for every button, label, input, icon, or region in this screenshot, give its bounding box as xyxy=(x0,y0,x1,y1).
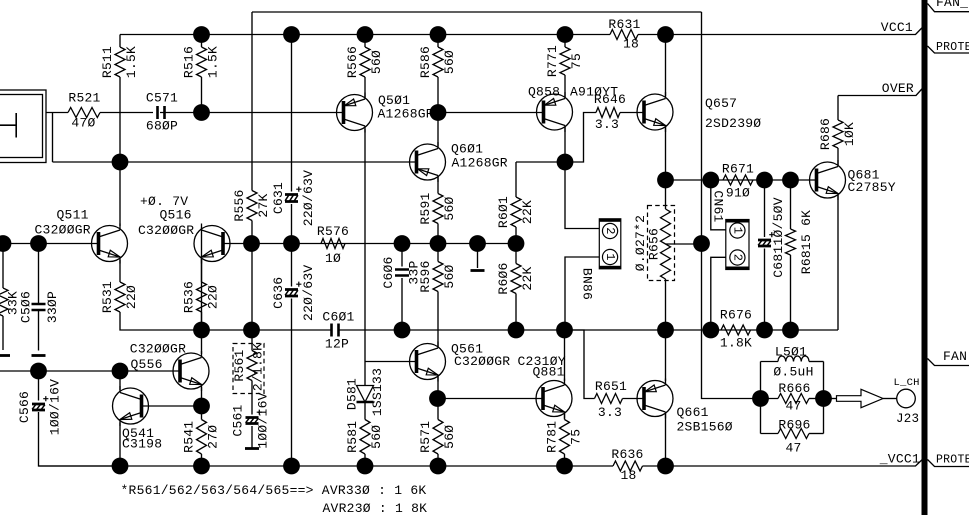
wire Q516 emitter to R536 [overlap] xyxy=(201,259,203,283)
wire CN61 pin2 down to node xyxy=(711,257,726,330)
junction at (516,330) xyxy=(508,322,525,339)
svg-text:L_CH: L_CH xyxy=(894,377,920,389)
junction at (665.5,466) on bottom rail xyxy=(657,458,674,475)
wire R586 top xyxy=(437,35,439,48)
svg-text:1SS133: 1SS133 xyxy=(370,368,385,416)
svg-text:2SB156Ø: 2SB156Ø xyxy=(677,420,733,435)
junction at (402,330) xyxy=(394,322,411,339)
wire L-block left side xyxy=(760,362,762,434)
wire node to R571 xyxy=(437,399,439,420)
wire node to Q556 collector xyxy=(201,330,203,354)
resistor R636 18 xyxy=(611,447,643,483)
capacitor C631 220/63V xyxy=(271,170,316,226)
dashed box R656 xyxy=(648,206,675,281)
wire OVER down to R686 xyxy=(837,96,839,121)
wire box to R521 xyxy=(46,112,68,114)
svg-text:R636: R636 xyxy=(611,447,643,462)
wire Q657 collector xyxy=(665,35,667,97)
output arrow to J23 xyxy=(837,389,884,407)
wire R516 bottom xyxy=(201,77,203,113)
wire D581 to R581 xyxy=(364,402,366,420)
inductor L501 0.5uH xyxy=(773,345,813,380)
svg-text:C32ØØGR: C32ØØGR xyxy=(35,223,91,238)
resistor R566 560 xyxy=(345,46,384,78)
svg-text:VCC1: VCC1 xyxy=(881,20,913,35)
svg-text:18: 18 xyxy=(623,37,639,52)
junction at (120,466) on bottom rail xyxy=(112,458,129,475)
svg-text:12P: 12P xyxy=(325,337,349,352)
wire R686 to Q681 collector xyxy=(837,148,839,165)
svg-text:1ØK: 1ØK xyxy=(842,122,857,146)
wire top bus down to L501 block xyxy=(702,12,761,399)
svg-text:91Ø: 91Ø xyxy=(726,186,750,201)
terminal stub mid line xyxy=(471,269,485,272)
junction at (790.5,330) xyxy=(782,322,799,339)
junction at (38.5,243.5) xyxy=(30,235,47,252)
svg-text:Q858: Q858 xyxy=(528,85,560,100)
svg-text:PROTECT: PROTECT xyxy=(936,41,969,54)
resistor R651 3.3 xyxy=(595,379,628,420)
junction at (251.5,243.5) xyxy=(243,235,260,252)
wire Q501 collector down to D581 node xyxy=(364,129,366,362)
junction at (665.5,180) xyxy=(657,172,674,189)
wire top bus y12 xyxy=(252,11,702,13)
wire Q858 emitter down xyxy=(564,127,566,163)
wire Q681 emitter down xyxy=(837,195,839,330)
svg-text:1.5K: 1.5K xyxy=(205,46,220,78)
wire node to D581 xyxy=(364,362,366,386)
svg-text:R576: R576 xyxy=(317,224,349,239)
wire arrow to J23 xyxy=(883,398,897,400)
capacitor C681 10/50V xyxy=(758,232,774,246)
wire R536 bottom xyxy=(201,312,203,330)
junction at (3,243.5) xyxy=(0,235,11,252)
junction at (291.5,243.5) xyxy=(283,235,300,252)
junction at (437.5,398.5) xyxy=(429,390,446,407)
svg-text:47: 47 xyxy=(785,399,801,414)
input connector box xyxy=(0,90,46,163)
resistor R631 18 xyxy=(608,17,640,52)
svg-text:2/1.8K: 2/1.8K xyxy=(250,343,265,391)
svg-text:FAN_L: FAN_L xyxy=(936,0,969,10)
junction at (665.5,330) xyxy=(657,322,674,339)
wire R771 top xyxy=(564,35,566,48)
wire R666 right xyxy=(809,398,824,400)
wire Q516 base line east xyxy=(223,243,516,245)
junction Q858 emitter node xyxy=(557,154,574,171)
svg-text:C2785Y: C2785Y xyxy=(848,180,896,195)
svg-text:3.3: 3.3 xyxy=(598,405,622,420)
wire Q541 emitter down xyxy=(119,423,121,467)
wire R601 branch horizontal xyxy=(516,161,565,163)
wire base rail of Q556 xyxy=(0,370,180,372)
terminal stub C506 xyxy=(32,354,46,357)
junction at (365,466) on bottom rail xyxy=(357,458,374,475)
diode D581 1SS133 xyxy=(344,368,385,416)
svg-text:R781: R781 xyxy=(544,421,559,453)
svg-text:27Ø: 27Ø xyxy=(205,425,220,449)
svg-text:R6815 6K: R6815 6K xyxy=(799,210,814,274)
svg-text:C32ØØGR: C32ØØGR xyxy=(130,342,186,357)
svg-text:R6Ø1: R6Ø1 xyxy=(496,196,511,228)
svg-text:Q556: Q556 xyxy=(131,357,163,372)
transistor Q681 C2785Y xyxy=(810,160,896,200)
wire mid line to Q511 base xyxy=(0,243,97,245)
svg-text:1: 1 xyxy=(730,227,744,234)
resistor R681 5.6K xyxy=(786,229,796,255)
wire mid node to C636 xyxy=(291,244,293,287)
junction at (564.5,466) on bottom rail xyxy=(556,458,573,475)
capacitor C606 33P xyxy=(381,256,422,288)
junction at (120,371) xyxy=(112,363,129,380)
wire to R696 xyxy=(761,433,779,435)
svg-text:22Ø/63V: 22Ø/63V xyxy=(301,170,316,226)
svg-text:R516: R516 xyxy=(181,46,196,78)
svg-text:75: 75 xyxy=(568,429,583,445)
svg-text:1Ø: 1Ø xyxy=(325,251,341,266)
svg-text:Q661: Q661 xyxy=(677,405,709,420)
junction at (564.5,330) xyxy=(556,322,573,339)
resistor R556 27K xyxy=(232,189,271,221)
resistor R571 560 xyxy=(418,420,457,455)
svg-text:CN61: CN61 xyxy=(711,190,726,222)
wire to L501 xyxy=(761,361,779,363)
svg-text:R536: R536 xyxy=(181,281,196,313)
junction at (438,34.5) on VCC rail xyxy=(430,26,447,43)
wire C631 to mid node xyxy=(291,204,293,244)
wire VCC rail left part xyxy=(120,34,610,36)
wire R646 to Q657 base xyxy=(620,112,644,114)
wire Q541 collector up xyxy=(119,371,121,390)
svg-text:R541: R541 xyxy=(181,421,196,453)
wire node to R651 xyxy=(565,330,595,399)
svg-text:Q881: Q881 xyxy=(533,365,565,380)
wire node to Q858 base xyxy=(438,112,544,114)
junction at (201.5,466) on bottom rail xyxy=(193,458,210,475)
junction Q511 collector node xyxy=(112,154,129,171)
connector BN86 xyxy=(580,219,621,300)
wire 33K to terminal xyxy=(2,316,4,350)
resistor R576 10 xyxy=(317,224,349,266)
junction at (201.5,34.5) on VCC rail xyxy=(193,26,210,43)
junction at (710.8,330) xyxy=(702,322,719,339)
svg-text:Ø.5uH: Ø.5uH xyxy=(773,365,813,380)
svg-text:R676: R676 xyxy=(720,308,752,323)
svg-text:R686: R686 xyxy=(818,118,833,150)
wire emitter line to Q681 base xyxy=(666,179,817,181)
resistor R601 22K xyxy=(496,196,535,228)
svg-text:*R561/562/563/564/565==> AVR33: *R561/562/563/564/565==> AVR33Ø : 1 6K xyxy=(121,483,427,498)
wire R771 to Q858 xyxy=(564,75,566,98)
wire R566 to Q501 emitter xyxy=(364,77,366,98)
wire R696 right xyxy=(809,433,824,435)
junction at (760.5,398.5) xyxy=(752,390,769,407)
wire C601 east line xyxy=(339,329,839,331)
wire node to R541 xyxy=(201,406,203,420)
junction at (565,34.5) on VCC rail xyxy=(557,26,574,43)
svg-text:D581: D581 xyxy=(344,378,359,410)
wire R531 to C601 line xyxy=(120,312,332,330)
resistor R671 910 xyxy=(722,162,754,201)
svg-text:R571: R571 xyxy=(418,421,433,453)
wire R511 top xyxy=(119,35,121,48)
wire C566 to bottom rail start xyxy=(39,412,121,466)
svg-text:75: 75 xyxy=(569,53,584,69)
wire node to R646 left xyxy=(565,113,596,163)
svg-text:L5Ø1: L5Ø1 xyxy=(775,345,807,360)
svg-text:A91ØYT: A91ØYT xyxy=(570,85,618,100)
resistor R771 75 xyxy=(545,45,584,77)
svg-text:PROTECT: PROTECT xyxy=(936,454,969,467)
svg-text:Q516: Q516 xyxy=(160,208,192,223)
resistor R781 75 xyxy=(544,420,583,455)
resistor R511 1.5K xyxy=(100,46,139,78)
junction at (710.8,180) xyxy=(702,172,719,189)
svg-text:R591: R591 xyxy=(418,192,433,224)
svg-text:R521: R521 xyxy=(68,91,100,106)
wire Q601 emitter up xyxy=(437,113,439,147)
transistor Q511 C3200GR xyxy=(35,208,128,264)
junction at (291.5,466) on bottom rail xyxy=(283,458,300,475)
wire D581 node to Q561 base xyxy=(365,361,417,363)
junction at (38.5,371) xyxy=(30,363,47,380)
wire column x252 upper xyxy=(251,12,253,191)
svg-text:R6Ø6: R6Ø6 xyxy=(496,262,511,294)
svg-text:A1268GR: A1268GR xyxy=(378,107,434,122)
junction at (764.5,330) xyxy=(756,322,773,339)
junction at (438,466) on bottom rail xyxy=(430,458,447,475)
svg-text:1.5K: 1.5K xyxy=(124,46,139,78)
wire Q881 emitter to R781 xyxy=(564,414,566,420)
wire Q661 emitter down xyxy=(665,414,667,467)
wire node to R596 xyxy=(437,244,439,262)
junction at (477.5,243.5) xyxy=(469,235,486,252)
svg-text:C566: C566 xyxy=(17,391,32,423)
wire R681 bottom to node xyxy=(790,255,792,330)
wire R511 bottom to Q511 collector node xyxy=(119,77,121,162)
svg-text:22K: 22K xyxy=(520,200,535,224)
transistor Q516 C3200GR xyxy=(138,194,230,264)
junction at (665.5,34.5) on VCC rail xyxy=(657,26,674,43)
svg-text:C6Ø6: C6Ø6 xyxy=(381,256,396,288)
wire C606 to node xyxy=(401,278,403,330)
resistor R561 2/1.8K xyxy=(247,351,257,381)
transistor Q661 2SB1560 xyxy=(637,379,733,435)
svg-text:R656: R656 xyxy=(646,228,661,260)
svg-text:OVER: OVER xyxy=(882,81,914,96)
wire to R601 top xyxy=(515,162,517,197)
wire R651 to Q661 base xyxy=(623,398,645,400)
net PROTECT bottom flag xyxy=(928,460,969,467)
svg-text:68ØP: 68ØP xyxy=(146,119,178,134)
svg-text:C636: C636 xyxy=(271,277,286,309)
resistor R586 560 xyxy=(418,46,457,78)
svg-text:_VCC1: _VCC1 xyxy=(879,452,920,467)
wire R781 to bottom rail xyxy=(564,454,566,466)
wire bottom rail east to bus entry xyxy=(643,460,923,467)
wire OVER net to bus entry xyxy=(838,89,922,96)
capacitor C571 680P xyxy=(146,91,178,134)
junction at (764.5,180) xyxy=(756,172,773,189)
resistor R541 270 xyxy=(181,420,220,455)
svg-text:56Ø: 56Ø xyxy=(369,50,384,74)
wire R591 to node xyxy=(437,224,439,244)
transistor Q561 C3200GR xyxy=(410,342,511,382)
transistor Q501 A1268GR xyxy=(337,93,434,133)
junction at (402,243.5) xyxy=(394,235,411,252)
resistor R516 1.5K xyxy=(181,46,220,78)
wire bottom rail west part xyxy=(39,465,614,467)
junction at (365,34.5) on VCC rail xyxy=(357,26,374,43)
wire VCC rail right part to bus entry xyxy=(638,28,922,35)
net FAN flag xyxy=(928,359,969,366)
wire C506 to terminal xyxy=(38,311,40,351)
svg-text:R666: R666 xyxy=(778,381,810,396)
svg-text:C561: C561 xyxy=(230,404,245,436)
svg-text:22Ø: 22Ø xyxy=(205,285,220,309)
wire node to BN86 pin2 xyxy=(565,162,599,229)
wire Q516 collector column xyxy=(201,228,203,331)
svg-text:22Ø: 22Ø xyxy=(124,285,139,309)
resistor R33K xyxy=(0,288,8,316)
svg-text:33ØP: 33ØP xyxy=(45,291,60,323)
svg-text:FAN: FAN xyxy=(943,349,967,364)
svg-text:R651: R651 xyxy=(595,379,627,394)
wire R606 to node xyxy=(515,294,517,331)
resistor R581 560 xyxy=(345,420,384,455)
svg-text:18: 18 xyxy=(620,468,636,483)
capacitor C636 220/63V xyxy=(271,265,316,321)
terminal stub 33K xyxy=(0,354,10,357)
wire C571 to Q501 base xyxy=(160,112,344,114)
wire to CN61 pin1 xyxy=(711,180,726,230)
svg-text:C5Ø6: C5Ø6 xyxy=(18,291,33,323)
wire R581 to bottom rail xyxy=(364,454,366,466)
wire to Q881 base xyxy=(438,398,543,400)
svg-text:2: 2 xyxy=(730,254,744,261)
junction at (823.5,398.5) xyxy=(815,390,832,407)
svg-text:R531: R531 xyxy=(100,281,115,313)
junction at (438,243.5) xyxy=(430,235,447,252)
svg-text:1ØØ/16V: 1ØØ/16V xyxy=(47,379,62,435)
wire branch down from input xyxy=(52,113,54,163)
junction at (790.5,180) xyxy=(782,172,799,189)
svg-text:47Ø: 47Ø xyxy=(71,116,95,131)
junction R656 tap xyxy=(693,235,710,252)
junction at (201.5,112.5) xyxy=(193,104,210,121)
net FAN_L flag xyxy=(928,4,969,12)
svg-text:56Ø: 56Ø xyxy=(369,425,384,449)
svg-text:3.3: 3.3 xyxy=(595,117,619,132)
resistor R656 0.027x2 xyxy=(661,209,671,279)
svg-text:C631: C631 xyxy=(271,182,286,214)
capacitor C506 330P xyxy=(18,291,60,323)
svg-text:R511: R511 xyxy=(100,46,115,78)
resistor R696 47 xyxy=(778,418,811,456)
resistor R531 220 xyxy=(100,281,139,313)
wire to C606 xyxy=(401,244,403,267)
wire stub below mid line xyxy=(477,244,479,269)
wire to C506 xyxy=(38,244,40,305)
junction at (516,243.5) xyxy=(508,235,525,252)
svg-text:22K: 22K xyxy=(520,266,535,290)
svg-text:1ØØ/16V: 1ØØ/16V xyxy=(255,392,270,448)
capacitor C601 12P xyxy=(322,310,354,352)
svg-text:22Ø/63V: 22Ø/63V xyxy=(301,265,316,321)
svg-text:C32ØØGR: C32ØØGR xyxy=(454,354,510,369)
wire R516 top xyxy=(201,35,203,48)
svg-text:R631: R631 xyxy=(608,17,640,32)
wire R566 top xyxy=(364,35,366,48)
svg-text:R566: R566 xyxy=(345,46,360,78)
svg-text:AVR23Ø : 1 8K: AVR23Ø : 1 8K xyxy=(323,501,428,515)
terminal stub C561 xyxy=(245,447,259,450)
svg-text:A1268GR: A1268GR xyxy=(452,156,508,171)
wire Q511 collector xyxy=(119,162,121,226)
svg-text:C32ØØGR: C32ØØGR xyxy=(138,223,194,238)
svg-text:1.8K: 1.8K xyxy=(720,336,752,351)
wire R601 to R606 through node xyxy=(515,227,517,264)
svg-text:56Ø: 56Ø xyxy=(442,264,457,288)
svg-text:R671: R671 xyxy=(722,162,754,177)
transistor Q601 A1268GR xyxy=(410,142,508,183)
svg-text:56Ø: 56Ø xyxy=(442,196,457,220)
net PROTECT top flag xyxy=(928,46,969,53)
wire BN86 pin1 to lower node xyxy=(565,257,599,330)
transistor Q881 C2310Y xyxy=(518,354,573,419)
junction at (251.5,330) xyxy=(243,322,260,339)
resistor R591 560 xyxy=(418,192,457,224)
wire Q881 collector up xyxy=(564,330,566,381)
resistor R521 470 xyxy=(68,91,101,131)
wire Q657 emitter to R656 xyxy=(665,127,667,209)
resistor R666 47 xyxy=(778,381,811,414)
resistor R536 220 xyxy=(181,281,220,313)
capacitor C561 100/16V xyxy=(230,392,270,448)
wire R561 to C561 xyxy=(251,381,253,415)
resistor R646 3.3 xyxy=(594,92,626,132)
wire to C681 top xyxy=(764,180,766,237)
svg-text:R586: R586 xyxy=(418,46,433,78)
junction at (438,112.5) xyxy=(430,104,447,121)
wire C681 bottom to node xyxy=(764,249,766,331)
svg-text:1: 1 xyxy=(603,253,617,260)
power bus bar xyxy=(922,0,928,515)
junction at (291.5,34.5) on VCC rail xyxy=(283,26,300,43)
svg-text:56Ø: 56Ø xyxy=(442,50,457,74)
svg-text:R556: R556 xyxy=(232,189,247,221)
junction at (201.5,330) xyxy=(193,322,210,339)
wire column x252 mid xyxy=(251,221,253,331)
svg-text:27K: 27K xyxy=(256,193,271,217)
wire Q511 emitter to R531 xyxy=(119,260,121,282)
junction Q541 base node xyxy=(193,398,210,415)
resistor R676 1.8K xyxy=(720,308,752,351)
svg-text:R581: R581 xyxy=(345,421,360,453)
svg-text:R771: R771 xyxy=(545,45,560,77)
wire to 33K resistor xyxy=(2,244,4,289)
dashed box R561 xyxy=(233,344,264,394)
wire R571 to bottom rail xyxy=(437,454,439,466)
wire R656 bottom to node xyxy=(665,279,667,330)
svg-text:Q657: Q657 xyxy=(705,96,737,111)
svg-text:56Ø: 56Ø xyxy=(442,425,457,449)
svg-text:33P: 33P xyxy=(406,260,421,284)
resistor R686 10K xyxy=(818,118,857,150)
wire column x292 upper to C631 xyxy=(291,35,293,192)
svg-text:R561: R561 xyxy=(232,349,247,381)
wire C636 to bottom rail xyxy=(291,299,293,467)
